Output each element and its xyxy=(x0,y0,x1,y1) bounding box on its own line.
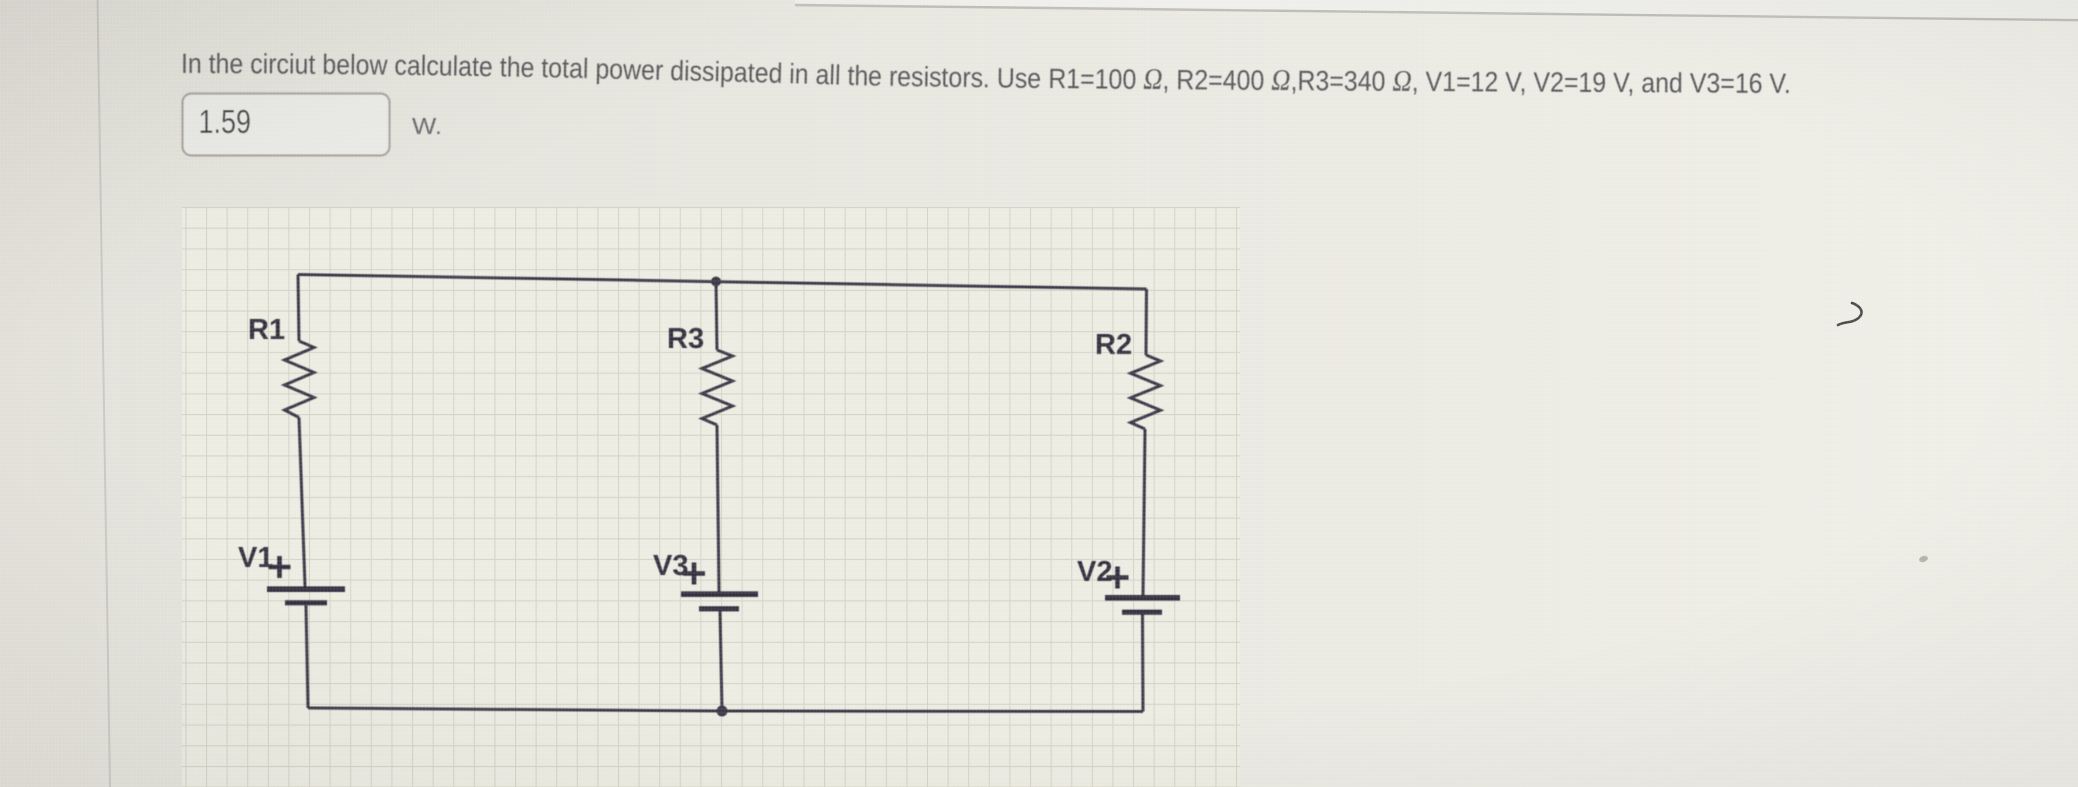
stray hair mark xyxy=(1838,303,1862,325)
wire left lower xyxy=(306,605,308,708)
battery V3 xyxy=(681,594,758,609)
battery V1 xyxy=(267,589,345,603)
battery V2 xyxy=(1105,598,1180,612)
top window edge light band xyxy=(795,0,2078,20)
resistor R3 xyxy=(702,350,733,425)
plus sign V1 xyxy=(269,556,291,578)
wire left upper xyxy=(298,275,299,342)
wire right middle xyxy=(1143,429,1145,596)
wire middle lower xyxy=(720,611,722,711)
graph paper xyxy=(182,207,1240,787)
smudge dot xyxy=(1918,555,1929,564)
node bottom (junction dot) xyxy=(717,706,728,717)
wire middle upper xyxy=(716,282,717,351)
wire top xyxy=(298,275,1147,290)
plus sign V3 xyxy=(683,563,705,585)
resistor R2 xyxy=(1131,355,1161,429)
wire middle middle xyxy=(717,425,719,592)
wire right lower xyxy=(1141,615,1145,712)
resistor R1 xyxy=(285,341,315,418)
top window edge line xyxy=(795,5,2078,20)
node top (junction dot) xyxy=(711,277,721,287)
left page edge line xyxy=(98,0,111,787)
wire bottom xyxy=(308,708,1143,712)
left page edge shading xyxy=(0,0,97,787)
wire left middle xyxy=(299,418,305,587)
answer input box xyxy=(183,94,390,156)
plus sign V2 xyxy=(1107,567,1129,589)
wire right upper xyxy=(1145,289,1149,355)
